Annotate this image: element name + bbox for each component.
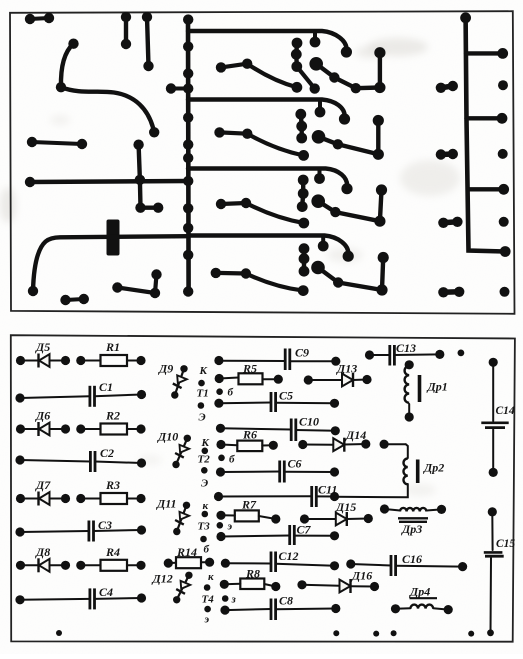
channel 1 pad column (294, 43, 299, 54)
svg-text:Д14: Д14 (345, 428, 366, 442)
diode Д12 (177, 575, 189, 600)
channel 3 large pad + diagonal (318, 201, 335, 212)
stray pad top right (458, 350, 465, 357)
svg-text:Т1: Т1 (197, 388, 209, 400)
svg-text:Э: Э (199, 412, 206, 424)
svg-text:С9: С9 (295, 346, 309, 360)
svg-text:С6: С6 (288, 457, 302, 471)
T4 connection dots (220, 580, 229, 589)
pad pair top-left (30, 18, 49, 19)
T3 connection dots (214, 492, 223, 501)
component layout outline (bottom figure) (11, 335, 515, 642)
channel 3 left pad pair + curve (221, 203, 246, 204)
svg-text:Д6: Д6 (35, 409, 50, 423)
pad pair bottom-left (66, 299, 84, 300)
channel 2 top trace (188, 100, 345, 120)
channel 1 left pad pair + curve (221, 64, 247, 68)
svg-text:б: б (228, 387, 234, 399)
channel 1 extra diagonal (297, 67, 315, 89)
right bus branch 1 (466, 51, 503, 55)
svg-text:С14: С14 (496, 405, 515, 417)
svg-text:R3: R3 (105, 478, 120, 492)
channel 2 large pad + diagonal (319, 137, 338, 145)
svg-text:R1: R1 (105, 340, 120, 354)
svg-text:Др4: Др4 (409, 585, 430, 599)
svg-text:R6: R6 (242, 428, 257, 442)
channel 4 left pad pair + curve (216, 271, 246, 276)
svg-text:С4: С4 (99, 585, 113, 599)
channel 4 large pad + diagonal (318, 268, 338, 283)
svg-text:Др2: Др2 (423, 461, 444, 475)
single pad far right (498, 149, 508, 159)
pad pair right area (443, 289, 459, 295)
vertical trace with elbow (138,145)-(140,208)-(158,208) (139, 145, 159, 208)
svg-text:С7: С7 (297, 523, 312, 537)
svg-text:К: К (201, 437, 210, 449)
single pad far right (499, 217, 509, 227)
svg-text:К: К (199, 365, 208, 377)
svg-text:Д5: Д5 (35, 340, 50, 354)
channel 1 large pad + diagonal (316, 64, 334, 78)
svg-text:Др3: Др3 (401, 522, 422, 536)
svg-text:Д10: Д10 (157, 430, 178, 444)
svg-text:Д8: Д8 (35, 545, 50, 559)
svg-text:Д12: Д12 (152, 572, 173, 586)
right vertical bus (466, 18, 505, 252)
slanted link (117,288)-(155,293)-(156,274) (117, 288, 155, 294)
diode Д11 (177, 505, 187, 531)
channel 3 stem pad (318, 170, 322, 179)
channel 2 left pad pair + curve (220, 132, 248, 133)
svg-text:Д9: Д9 (158, 362, 173, 376)
svg-text:Т3: Т3 (198, 521, 211, 533)
svg-text:С1: С1 (99, 380, 113, 394)
svg-text:R2: R2 (105, 409, 120, 423)
vertical pad pair x=126 (124, 17, 128, 44)
svg-text:к: к (208, 571, 214, 583)
single pad far right (498, 80, 508, 90)
channel 2 stem pad (318, 101, 322, 113)
curved trace from pad (73,44) down to node (61,87) (61, 44, 74, 87)
central vertical bus (186, 18, 191, 292)
svg-text:б: б (204, 544, 210, 556)
svg-text:з: з (231, 594, 237, 606)
long horizontal trace y=181 to central bus (30, 181, 188, 182)
pad pair right area (443, 222, 457, 223)
svg-text:С5: С5 (279, 389, 293, 403)
single pad far right (500, 287, 510, 297)
diode Д10 (176, 438, 187, 464)
svg-text:к: к (203, 500, 209, 512)
scan smudges (decorative background, not labelled) (368, 38, 428, 56)
pad pair right area (441, 151, 453, 157)
pad pair right area (441, 86, 453, 88)
right bus branch 3 (468, 187, 504, 191)
thick jumper bar (107, 220, 120, 256)
channel 4 pad column (302, 249, 306, 259)
stub pad left of bus (171, 87, 188, 91)
svg-text:Др1: Др1 (427, 380, 448, 394)
svg-text:С10: С10 (299, 415, 319, 429)
svg-text:Э: Э (201, 478, 208, 490)
svg-text:С2: С2 (100, 446, 114, 460)
svg-text:Д11: Д11 (156, 497, 177, 511)
stray pads along bottom (56, 630, 62, 636)
channel 3 top trace (188, 169, 347, 189)
diode Д9 (175, 369, 184, 395)
right bus branch 2 (467, 116, 503, 120)
svg-text:С13: С13 (396, 341, 416, 355)
svg-text:С12: С12 (279, 549, 299, 563)
PCB board outline (top figure) (10, 11, 515, 314)
svg-text:э: э (227, 521, 233, 533)
svg-text:Д16: Д16 (351, 569, 372, 583)
channel 3 pad column (301, 180, 305, 194)
T2 connection dots (216, 424, 225, 433)
long sweeping trace (61,87)->(154,132) (61, 87, 154, 132)
svg-text:Т4: Т4 (202, 594, 215, 606)
channel 4 stem pad (321, 237, 325, 247)
svg-text:С16: С16 (402, 552, 422, 566)
svg-text:б: б (229, 454, 235, 466)
T1 connection dots (214, 356, 223, 365)
channel 1 top trace (188, 31, 347, 52)
curved trace bottom-left (33,291) up to horizontal y=237 into bus (33, 236, 188, 291)
svg-text:С15: С15 (496, 538, 515, 550)
channel 2 pad column (299, 114, 304, 126)
svg-text:С8: С8 (279, 594, 293, 608)
vertical trace x=147 (147, 17, 149, 66)
svg-text:Д7: Д7 (35, 478, 51, 492)
svg-text:Т2: Т2 (198, 454, 211, 466)
svg-text:э: э (204, 614, 210, 626)
channel 1 stem pad (313, 32, 317, 42)
svg-text:Д15: Д15 (335, 500, 356, 514)
svg-text:R4: R4 (105, 545, 120, 559)
channel 4 top trace (188, 236, 348, 257)
pad pair mid-left (32, 142, 82, 144)
